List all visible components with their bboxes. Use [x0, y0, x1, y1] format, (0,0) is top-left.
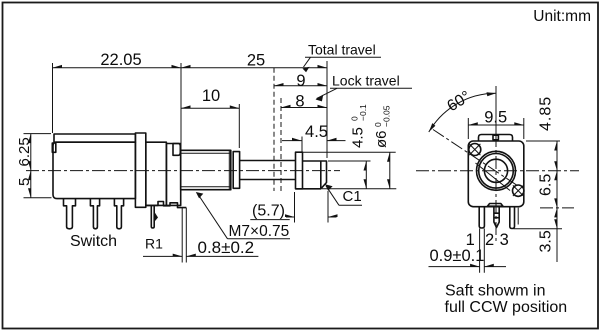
svg-text:3.5: 3.5: [538, 230, 555, 252]
text 3.5 rotated: [538, 230, 555, 252]
fv tab notch: [493, 135, 498, 140]
svg-text:6.25: 6.25: [16, 137, 33, 166]
shaft flange: [296, 152, 303, 189]
leader M7: [198, 194, 228, 239]
leader C1: [326, 186, 339, 206]
ext line x52.5: [52, 63, 54, 133]
svg-text:Switch: Switch: [70, 233, 117, 250]
svg-text:Total travel: Total travel: [308, 42, 376, 58]
dim 4.5 lock length: [282, 140, 346, 142]
ext centerline right: [540, 207, 574, 209]
shaft end piece: [296, 161, 327, 189]
svg-text:Saft showm in: Saft showm in: [445, 283, 545, 300]
fv BR hatch circle: [513, 185, 524, 196]
dim 22.05 / 25 line: [53, 67, 328, 69]
leader lock travel: [317, 88, 338, 98]
switch pin shoulder 1: [64, 199, 76, 229]
fv body: [468, 141, 524, 207]
text 6.5 rotated: [538, 174, 555, 196]
dim 10: [181, 107, 239, 109]
R1 pin: [151, 205, 154, 228]
svg-text:3: 3: [500, 231, 509, 249]
centerline left view: [26, 170, 340, 172]
bushing clip: [173, 144, 180, 156]
svg-text:full CCW position: full CCW position: [445, 299, 568, 316]
body left tab: [52, 143, 56, 152]
ext pin tips: [514, 228, 563, 230]
svg-text:C1: C1: [343, 188, 362, 205]
fv TL hatch circle: [469, 144, 481, 156]
fv horizontal centerline: [416, 170, 579, 172]
ext 5.7 verticals: [295, 191, 329, 223]
switch pin shoulder 2: [90, 199, 99, 229]
svg-text:25: 25: [247, 52, 265, 70]
dim 9.5: [468, 124, 524, 126]
dim phi6 vertical: [389, 152, 391, 189]
svg-text:−0.05: −0.05: [382, 105, 392, 127]
fv 60 diagonal: [433, 130, 517, 186]
bottom bracket profile: [146, 202, 187, 208]
shaft: [240, 161, 296, 180]
ext line x327: [326, 61, 328, 158]
ext 4.85 top: [526, 140, 560, 142]
mounting plate: [182, 208, 186, 263]
fv 60 arc: [429, 93, 496, 132]
svg-text:6.5: 6.5: [538, 174, 555, 196]
svg-text:9: 9: [296, 72, 305, 90]
fv vertical centerline: [495, 86, 497, 134]
switch pin shoulder 3: [114, 199, 123, 229]
bushing thread lines: [181, 150, 231, 189]
svg-text:Lock travel: Lock travel: [332, 73, 400, 89]
svg-text:0.8±0.2: 0.8±0.2: [198, 238, 255, 257]
right dim column: [556, 141, 558, 262]
text 60deg: [444, 88, 474, 115]
fv top tab: [479, 135, 513, 142]
fv slot chord: [476, 163, 511, 191]
fv circle inner: [484, 159, 507, 182]
middle band: [135, 133, 145, 207]
svg-text:4.5: 4.5: [350, 127, 367, 148]
R1 pin flag: [154, 212, 158, 223]
switch body cap: [54, 134, 135, 142]
fv pin 2: [494, 207, 499, 228]
switch body: [53, 142, 135, 198]
fv bottom tab: [487, 204, 503, 207]
bushing washer: [233, 152, 239, 189]
ext line x239.3: [238, 104, 240, 148]
ext 0.9 verticals: [480, 229, 485, 273]
dashed travel line a: [273, 68, 275, 191]
ext slot mid: [328, 160, 371, 162]
svg-text:10: 10: [202, 87, 220, 105]
arrowheads top dims: [53, 65, 328, 68]
ext phi6 top: [303, 151, 396, 153]
fv pin 3: [510, 207, 515, 229]
bushing: [181, 150, 231, 189]
svg-text:Unit:mm: Unit:mm: [533, 8, 591, 25]
ext line x181: [180, 63, 182, 149]
svg-text:4.85: 4.85: [538, 96, 555, 131]
dim 4.5 slot vertical: [365, 161, 367, 189]
text 5 rotated: [16, 178, 33, 186]
svg-text:9.5: 9.5: [484, 109, 507, 127]
svg-text:4.5: 4.5: [305, 123, 328, 141]
svg-text:0.9±0.1: 0.9±0.1: [430, 247, 485, 265]
svg-text:ø6: ø6: [373, 130, 390, 148]
svg-text:22.05: 22.05: [100, 51, 141, 69]
text phi6 tol rotated: [373, 105, 392, 148]
svg-text:5: 5: [16, 178, 33, 186]
fv pin 1: [479, 207, 484, 228]
leader total travel: [304, 57, 311, 67]
fv circle outer: [477, 151, 516, 190]
pot section A: [146, 142, 167, 205]
dim 8: [281, 107, 327, 109]
text 4.85 rotated: [538, 96, 555, 131]
svg-text:−0.1: −0.1: [358, 104, 368, 121]
svg-text:2: 2: [485, 231, 494, 249]
fv circle ring: [479, 154, 514, 189]
svg-text:8: 8: [295, 93, 304, 111]
ext phi6 bottom: [322, 188, 396, 190]
fv extra lug edge: [517, 208, 519, 225]
text 6.25 rotated: [16, 137, 33, 166]
dim 9: [274, 85, 327, 87]
svg-text:R1: R1: [145, 236, 163, 252]
svg-text:(5.7): (5.7): [252, 203, 285, 220]
dim 6.25 / 5: [30, 134, 32, 198]
pot section B: [166, 144, 180, 206]
dashed travel line b: [280, 98, 282, 191]
ext x302: [301, 137, 303, 153]
text 4.5 tol rotated: [350, 104, 369, 148]
